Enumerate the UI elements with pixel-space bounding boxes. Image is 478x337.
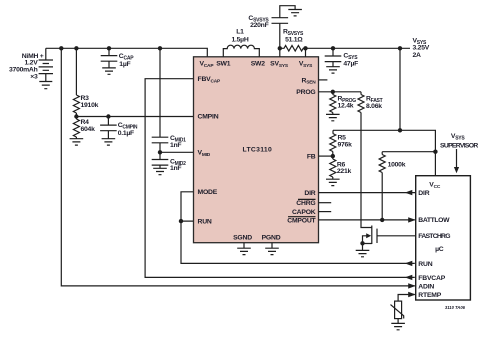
node: 1000k to CMPOUT line <box>380 218 384 222</box>
resistor RPROG 12.4k <box>330 92 356 115</box>
wire: RSEN stub <box>319 79 328 81</box>
svg-text:PGND: PGND <box>262 234 281 241</box>
svg-text:3.25V: 3.25V <box>413 45 430 52</box>
capacitor CCMPIN 0.1uF <box>100 117 138 139</box>
svg-text:221k: 221k <box>337 168 352 175</box>
svg-text:51.1Ω: 51.1Ω <box>285 37 303 44</box>
wire: VSYS pin stub <box>305 48 307 57</box>
node: R3 tap on rail <box>74 46 78 50</box>
svg-text:12.4k: 12.4k <box>338 103 354 110</box>
node: VSYS pin junction <box>303 46 307 50</box>
capacitor CCAP 1uF <box>101 48 134 68</box>
ground (R4) <box>70 139 84 145</box>
svg-text:×3: ×3 <box>30 73 38 80</box>
svg-text:RUN: RUN <box>418 261 432 268</box>
svg-text:1nF: 1nF <box>170 142 181 149</box>
svg-text:FASTCHRG: FASTCHRG <box>418 233 450 240</box>
node: ADIN tap on rail <box>59 46 63 50</box>
resistor RFAST 8.06k <box>358 92 383 113</box>
svg-text:47µF: 47µF <box>343 60 358 67</box>
node: VSYS/feedback junction <box>398 128 402 132</box>
ground (RPROG) <box>326 114 340 120</box>
node: VSYS output tap <box>398 46 402 50</box>
wire: CAPOK stub <box>319 211 332 213</box>
ground (thermistor) <box>391 323 405 329</box>
node: RPROG tap <box>331 90 335 94</box>
svg-text:RUN: RUN <box>198 219 212 226</box>
resistor R4 <box>73 117 95 139</box>
node: CCAP tap on rail <box>107 46 111 50</box>
resistor R3 <box>73 48 98 116</box>
wire: CHRG stub <box>319 202 332 204</box>
svg-text:1.5µH: 1.5µH <box>231 36 248 43</box>
node: 1000k to VCC line <box>433 150 437 154</box>
node: FB divider junction <box>331 154 335 158</box>
resistor R7 1000k pull-up <box>379 152 435 220</box>
transistor Q1 NMOS <box>360 226 415 251</box>
svg-text:604k: 604k <box>81 126 96 133</box>
wire: ADIN loop to supervisor <box>61 48 415 286</box>
svg-text:DIR: DIR <box>418 190 429 197</box>
svg-text:SGND: SGND <box>233 234 252 241</box>
ground (CCAP) <box>102 68 116 74</box>
wire: SGND stub <box>243 243 245 249</box>
svg-text:CMPOUT: CMPOUT <box>287 218 316 225</box>
wire: VSYS down to VCC line <box>399 48 401 130</box>
node: CCMPIN tap <box>106 114 110 118</box>
resistor R5 976k <box>330 130 352 156</box>
capacitor CSVSYS 220nF <box>248 6 295 49</box>
svg-text:LTC3110: LTC3110 <box>243 147 272 154</box>
wire: FBVCAP loop <box>145 79 415 278</box>
svg-text:0.1µF: 0.1µF <box>118 130 134 137</box>
wire: battery+ rail to VCAP pin <box>46 48 208 57</box>
svg-text:R5: R5 <box>338 135 347 142</box>
svg-text:DIR: DIR <box>304 190 315 197</box>
wire: RFAST to MOSFET drain <box>361 113 372 228</box>
node: R3/R4 junction <box>74 114 78 118</box>
battery labels <box>9 53 44 81</box>
inductor L1 1.5uH <box>223 28 259 56</box>
svg-text:µC: µC <box>435 246 444 253</box>
svg-text:1910k: 1910k <box>81 102 99 109</box>
op-amp U1 LTC3110 body <box>194 57 319 243</box>
VSYS output label <box>413 37 430 59</box>
ground (Q1 source) <box>356 250 370 256</box>
svg-text:BATTLOW: BATTLOW <box>418 217 450 224</box>
resistor RSVSYS 51.1ohm <box>280 28 306 51</box>
wire: CMPIN line <box>76 116 193 118</box>
node: CMID tap on rail <box>158 46 162 50</box>
wire: PGND stub <box>271 243 273 249</box>
svg-text:2A: 2A <box>413 52 422 59</box>
ground (CSYS) <box>326 67 340 73</box>
svg-text:8.06k: 8.06k <box>366 103 382 110</box>
wire: CMPOUT to BATTLOW line <box>319 219 415 221</box>
capacitor CSYS 47uF <box>325 48 359 67</box>
wire: FB line <box>319 155 333 157</box>
thermistor RT1 <box>391 301 404 323</box>
wire: MODE to RUN tie <box>181 192 194 221</box>
svg-text:FBVCAP: FBVCAP <box>418 275 445 282</box>
svg-text:L1: L1 <box>236 28 244 35</box>
node: MODE/RUN junction <box>179 219 183 223</box>
ground (PGND) <box>265 248 279 254</box>
wire: VMID to IC <box>160 151 194 153</box>
wire: feedback top line to supervisor VCC <box>333 130 435 175</box>
svg-text:SW2: SW2 <box>251 61 266 68</box>
svg-text:FB: FB <box>307 154 316 161</box>
svg-text:1nF: 1nF <box>170 165 181 172</box>
svg-text:976k: 976k <box>338 142 353 149</box>
svg-text:1000k: 1000k <box>388 162 406 169</box>
capacitor CMID2 1nF <box>152 152 186 172</box>
svg-text:ADIN: ADIN <box>418 283 434 290</box>
node: SVSYS junction <box>278 46 282 50</box>
svg-text:CAPOK: CAPOK <box>292 209 316 216</box>
svg-text:CMPIN: CMPIN <box>198 113 219 120</box>
svg-text:CHRG: CHRG <box>296 200 315 207</box>
svg-text:1µF: 1µF <box>119 61 130 68</box>
svg-text:R4: R4 <box>81 119 90 126</box>
svg-text:SUPERVISOR: SUPERVISOR <box>440 143 478 150</box>
wire: FBVCAP/ADIN arrows reach box <box>404 263 406 277</box>
wire: RUN loop to supervisor <box>181 221 415 263</box>
supervisor box U2 <box>416 176 471 300</box>
wire: VSYS rail <box>306 47 411 49</box>
svg-text:220nF: 220nF <box>250 22 268 29</box>
ground (R6) <box>326 179 340 185</box>
arrow: supervisor pointer <box>456 149 458 168</box>
resistor R6 221k <box>330 156 352 179</box>
svg-text:PROG: PROG <box>296 89 315 96</box>
capacitor CMID1 1nF <box>152 48 186 152</box>
ground (CCMPIN) <box>102 139 116 145</box>
svg-text:RTEMP: RTEMP <box>418 292 441 299</box>
svg-text:3110 TA06: 3110 TA06 <box>445 305 466 310</box>
svg-text:SW1: SW1 <box>216 61 231 68</box>
wire: PROG line <box>319 91 362 93</box>
ground (CSVSYS) <box>288 10 302 16</box>
wire: RTEMP line <box>398 295 415 302</box>
ground (SGND) <box>237 248 251 254</box>
wire: SVSYS pin stub <box>279 48 281 57</box>
svg-text:MODE: MODE <box>198 189 218 196</box>
wire: DIR line <box>319 192 416 194</box>
battery BT1 (NiMH stack) <box>39 48 53 88</box>
node: VMID junction <box>158 150 162 154</box>
node: CSYS tap <box>331 46 335 50</box>
svg-text:R3: R3 <box>81 95 90 102</box>
ground (CMID2) <box>153 168 167 174</box>
